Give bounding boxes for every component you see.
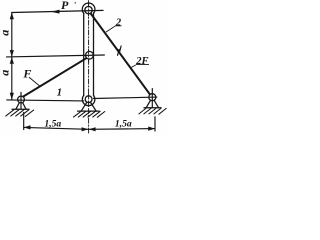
svg-text:1: 1 xyxy=(57,87,63,99)
leader for label F xyxy=(29,77,40,86)
support B base xyxy=(78,110,99,112)
arrowhead dim a top xyxy=(10,12,14,19)
column left edge xyxy=(83,13,85,95)
svg-text:a: a xyxy=(0,70,12,76)
bottom dimension line span 1 xyxy=(24,127,89,129)
column right edge xyxy=(93,13,95,95)
bottom extension line right xyxy=(154,117,156,131)
support B triangle legs (middle) xyxy=(81,99,96,111)
force tick on bar 2 xyxy=(118,46,122,55)
support C base xyxy=(144,107,161,109)
arrowhead dim 1,5a mid right xyxy=(82,127,89,131)
svg-text:a: a xyxy=(0,30,11,36)
bar 2 xyxy=(91,14,151,96)
support A base xyxy=(12,108,29,110)
arrowhead force P xyxy=(51,10,59,14)
arrowhead dim 1,5a far left xyxy=(24,125,31,129)
speck near P xyxy=(75,2,76,4)
pin top xyxy=(85,6,92,13)
svg-text:F: F xyxy=(22,66,31,80)
arrowhead dim 1,5a mid left xyxy=(89,127,96,131)
left pin vertical crosshair xyxy=(20,92,22,109)
svg-text:2F: 2F xyxy=(135,56,148,67)
leader for label 2F xyxy=(131,64,149,67)
ground line left segment xyxy=(7,100,84,101)
ground line right segment xyxy=(93,97,156,98)
top extension line with force P line xyxy=(12,10,103,12)
arrowhead dim a bottom xyxy=(10,93,14,100)
arrowhead dim a middle up xyxy=(10,57,14,64)
svg-text:2: 2 xyxy=(115,18,122,29)
bar 1 xyxy=(23,58,86,96)
pin bottom middle xyxy=(85,96,92,103)
pin bottom left xyxy=(18,96,25,103)
leader for label 2 xyxy=(106,26,121,32)
support A triangle legs (left) xyxy=(16,100,26,110)
svg-text:1,5a: 1,5a xyxy=(44,119,61,130)
centerline over pins xyxy=(88,2,90,106)
column top cap xyxy=(82,3,95,13)
support A hatching xyxy=(6,110,34,117)
pin bottom right xyxy=(149,94,156,101)
arrowhead dim 1,5a far right xyxy=(148,127,155,131)
right pin vertical crosshair xyxy=(151,89,153,108)
svg-text:1,5a: 1,5a xyxy=(115,118,132,129)
svg-text:P: P xyxy=(61,0,69,12)
column centerline xyxy=(88,1,90,134)
bottom extension line left xyxy=(23,113,25,130)
bottom dimension line span 2 xyxy=(89,128,155,131)
support B hatching xyxy=(74,111,105,117)
pin middle xyxy=(86,51,94,59)
middle extension line xyxy=(7,55,105,57)
support C hatching xyxy=(139,108,166,114)
column bottom cap xyxy=(82,95,95,105)
support C triangle legs (right) xyxy=(146,97,158,108)
dimension vertical line left xyxy=(11,12,13,99)
arrowhead dim a middle down xyxy=(10,50,14,57)
